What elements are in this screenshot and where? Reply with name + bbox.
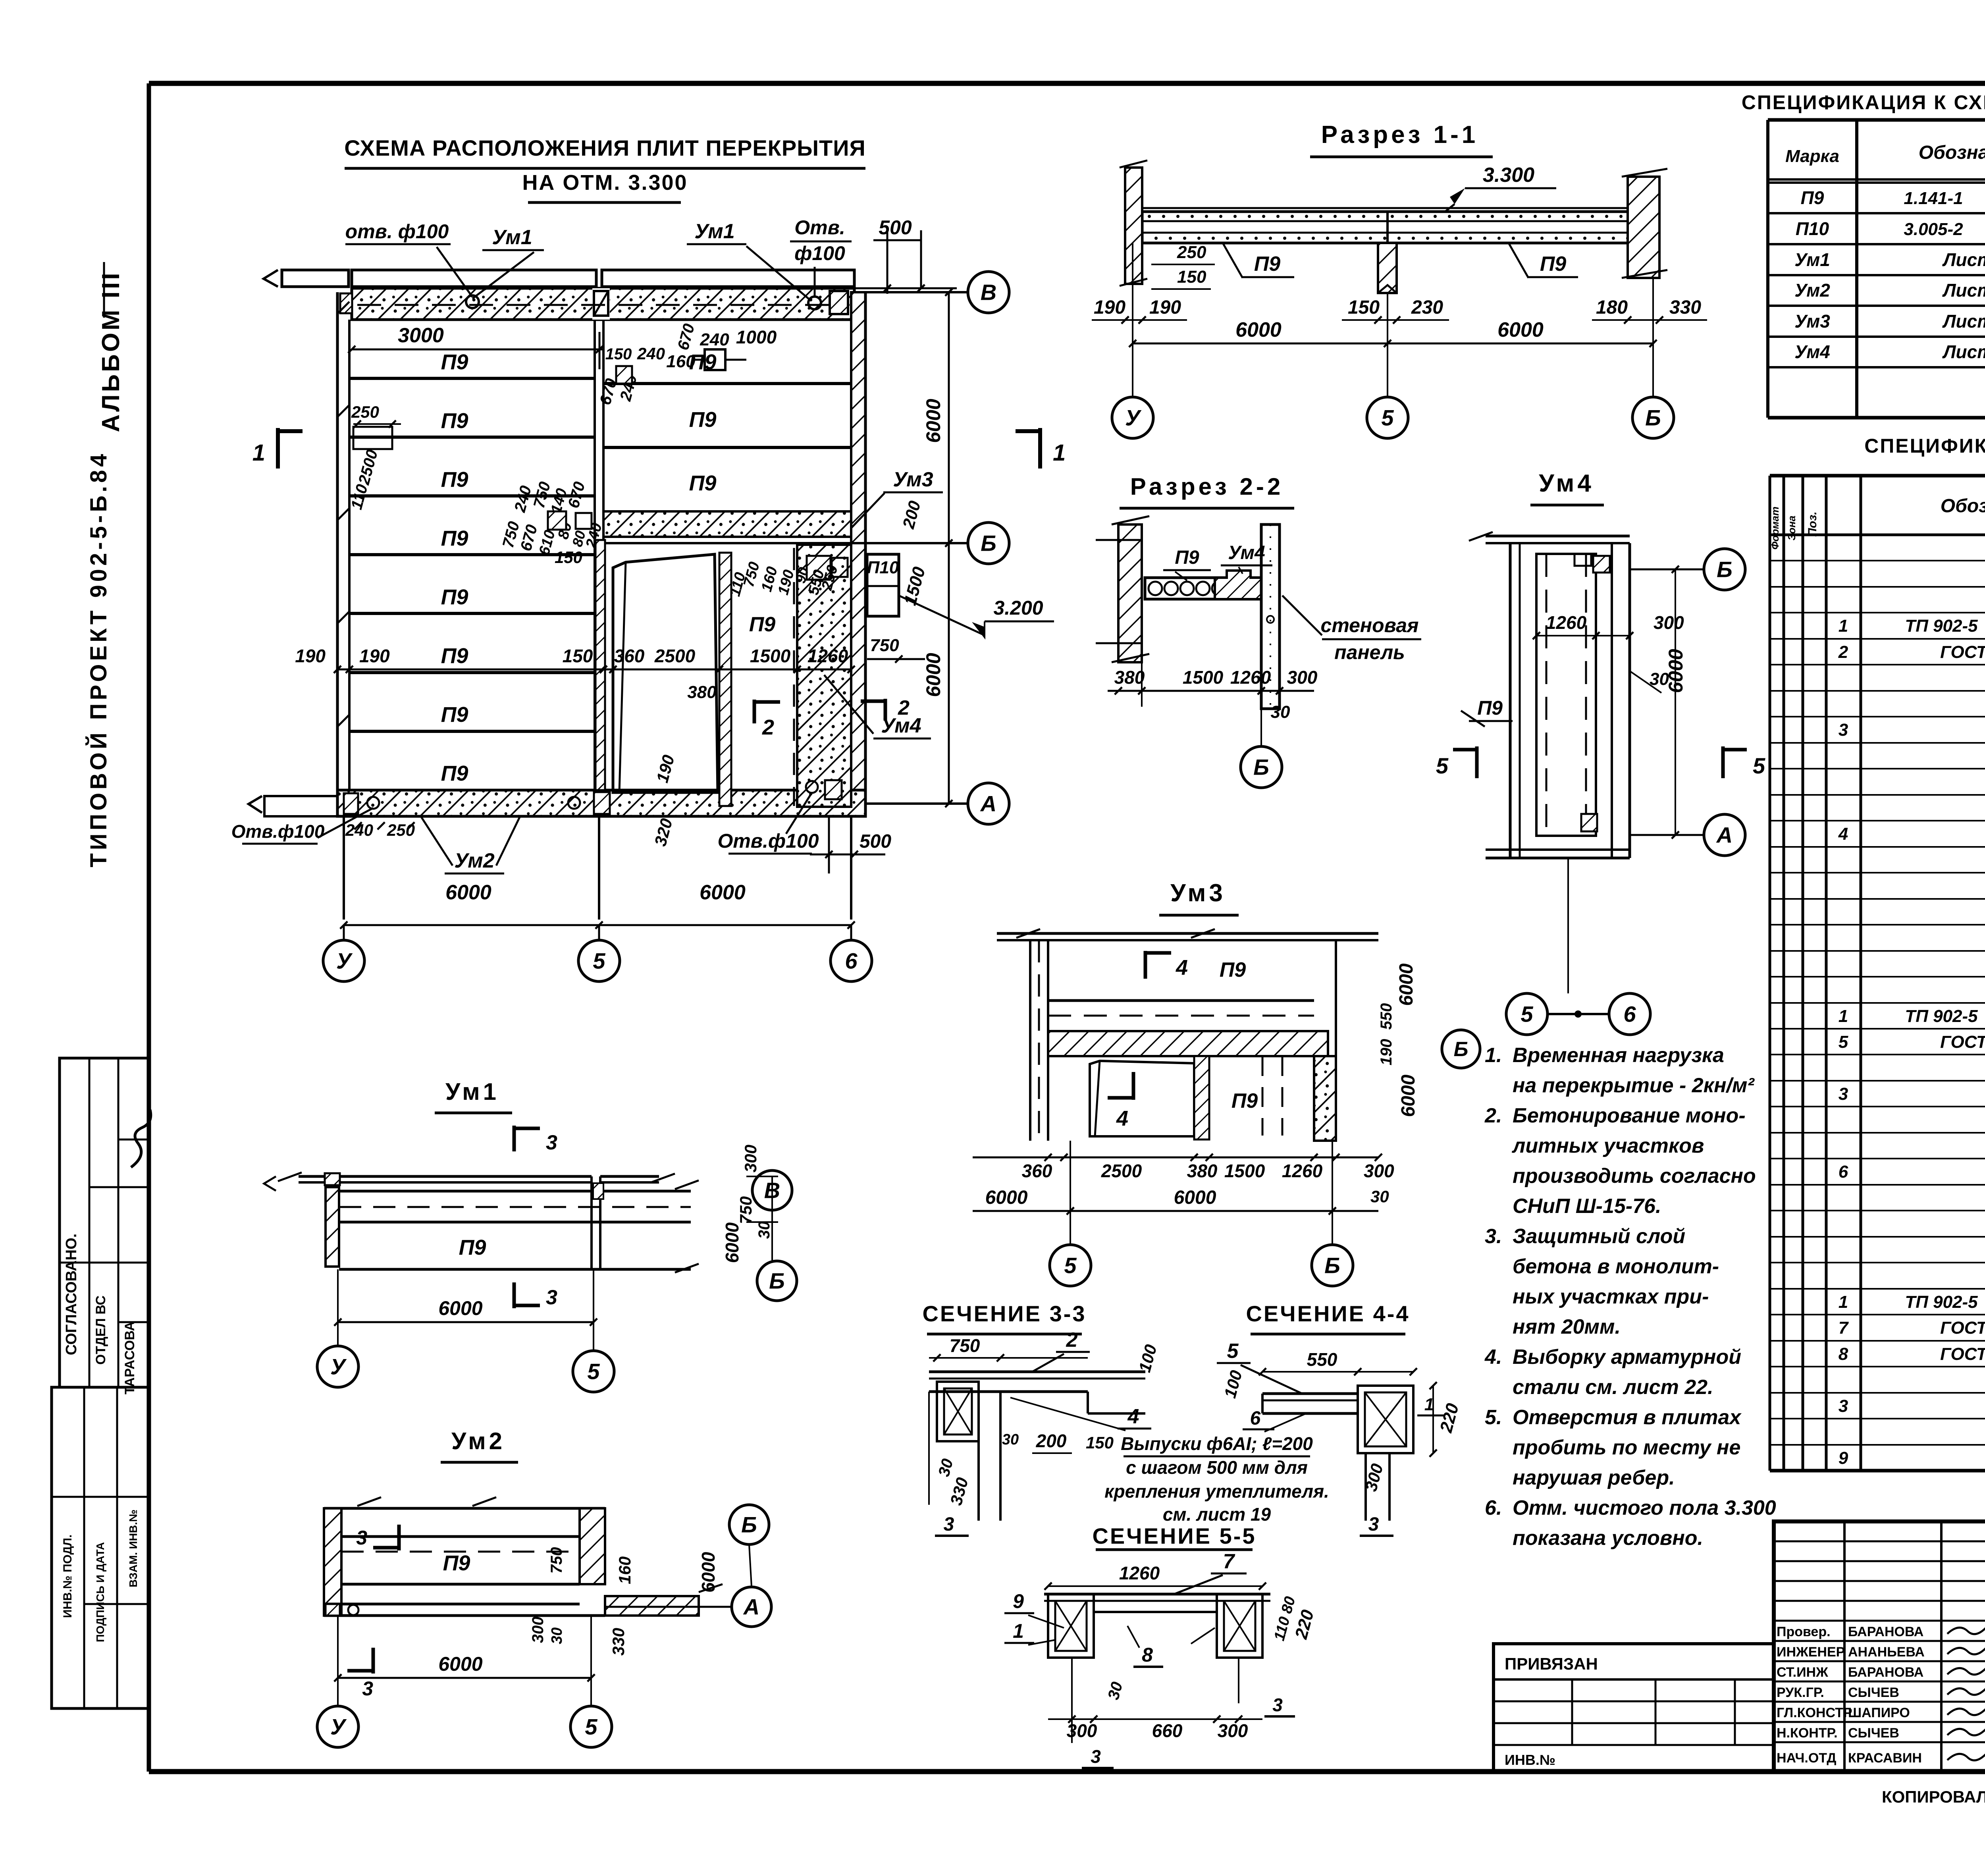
svg-text:30: 30 (1370, 1187, 1389, 1206)
svg-text:Ум4: Ум4 (1228, 542, 1265, 563)
svg-text:4: 4 (1176, 956, 1188, 979)
svg-text:стали см. лист 22.: стали см. лист 22. (1513, 1376, 1713, 1399)
svg-text:П9: П9 (689, 471, 717, 495)
svg-text:Ум2: Ум2 (451, 1428, 505, 1454)
svg-text:1500: 1500 (1224, 1161, 1265, 1181)
svg-text:ГЛ.КОНСТР: ГЛ.КОНСТР (1777, 1705, 1852, 1720)
svg-text:250: 250 (351, 403, 379, 421)
svg-text:Поз.: Поз. (1806, 511, 1819, 537)
svg-text:1000: 1000 (736, 327, 777, 347)
svg-text:Отв.ф100: Отв.ф100 (231, 821, 325, 842)
svg-text:6000: 6000 (922, 653, 944, 697)
svg-text:БАРАНОВА: БАРАНОВА (1848, 1624, 1923, 1639)
svg-text:Ум2: Ум2 (1794, 280, 1830, 301)
svg-text:В: В (764, 1178, 780, 1203)
svg-text:300: 300 (1364, 1161, 1394, 1181)
svg-text:2.: 2. (1484, 1104, 1502, 1127)
svg-text:П9: П9 (441, 644, 468, 668)
svg-text:5: 5 (1521, 1002, 1533, 1027)
svg-text:П10: П10 (1796, 218, 1829, 239)
svg-text:550: 550 (1378, 1003, 1395, 1030)
svg-text:П9: П9 (689, 408, 717, 432)
svg-text:5: 5 (585, 1714, 597, 1739)
svg-text:6000: 6000 (700, 881, 746, 904)
svg-text:СХЕМА РАСПОЛОЖЕНИЯ ПЛИТ ПЕРЕКР: СХЕМА РАСПОЛОЖЕНИЯ ПЛИТ ПЕРЕКРЫТИЯ (344, 135, 866, 160)
svg-text:1: 1 (1053, 440, 1066, 466)
svg-text:Б: Б (1645, 405, 1661, 430)
svg-text:300: 300 (529, 1617, 547, 1643)
svg-text:5: 5 (593, 949, 605, 974)
svg-text:А: А (980, 791, 996, 816)
svg-text:Лист 17: Лист 17 (1942, 311, 1985, 332)
svg-text:360: 360 (614, 646, 645, 666)
svg-text:6: 6 (1250, 1408, 1261, 1429)
svg-text:6.: 6. (1485, 1496, 1502, 1519)
svg-text:6000: 6000 (438, 1297, 482, 1319)
svg-text:Н.КОНТР.: Н.КОНТР. (1777, 1726, 1838, 1741)
svg-text:П9: П9 (441, 762, 468, 785)
svg-text:3: 3 (356, 1527, 367, 1549)
svg-text:П9: П9 (441, 703, 468, 727)
svg-text:СЫЧЕВ: СЫЧЕВ (1848, 1726, 1899, 1741)
svg-text:160: 160 (666, 352, 696, 371)
svg-text:750: 750 (950, 1335, 980, 1356)
svg-text:180: 180 (1596, 297, 1628, 318)
svg-text:крепления утеплителя.: крепления утеплителя. (1104, 1481, 1329, 1502)
svg-text:П9: П9 (1540, 253, 1566, 276)
svg-text:300: 300 (741, 1145, 760, 1172)
svg-text:Временная нагрузка: Временная нагрузка (1513, 1044, 1724, 1067)
svg-text:панель: панель (1334, 641, 1405, 663)
svg-text:150: 150 (1086, 1433, 1114, 1452)
svg-text:литных участков: литных участков (1511, 1134, 1704, 1157)
svg-text:2: 2 (1838, 642, 1848, 662)
svg-text:СЫЧЕВ: СЫЧЕВ (1848, 1685, 1899, 1700)
svg-text:ИНВ.№ ПОДЛ.: ИНВ.№ ПОДЛ. (61, 1535, 74, 1618)
svg-text:стеновая: стеновая (1321, 614, 1419, 636)
svg-text:П10: П10 (867, 558, 899, 577)
svg-text:1260: 1260 (1230, 667, 1271, 688)
svg-text:240: 240 (700, 330, 729, 349)
svg-text:П9: П9 (441, 409, 468, 433)
svg-text:ТП 902-5: ТП 902-5 (1905, 1292, 1978, 1312)
svg-text:1: 1 (252, 440, 265, 466)
svg-text:2500: 2500 (1101, 1161, 1142, 1181)
svg-text:ГОСТ 23279-78: ГОСТ 23279-78 (1940, 1032, 1985, 1052)
svg-text:ГОСТ 23279-78: ГОСТ 23279-78 (1940, 642, 1985, 662)
svg-text:3: 3 (1839, 1084, 1848, 1104)
svg-text:НА ОТМ. 3.300: НА ОТМ. 3.300 (522, 171, 688, 195)
svg-text:ГОСТ 23279-78: ГОСТ 23279-78 (1940, 1318, 1985, 1338)
svg-text:Ум1: Ум1 (694, 220, 734, 243)
svg-text:3.200: 3.200 (993, 597, 1043, 619)
svg-text:КРАСАВИН: КРАСАВИН (1848, 1751, 1922, 1766)
svg-text:4.: 4. (1484, 1346, 1502, 1369)
svg-text:250: 250 (1177, 243, 1206, 262)
svg-text:4: 4 (1127, 1405, 1139, 1428)
svg-text:Б: Б (741, 1512, 757, 1537)
svg-text:ных участках при-: ных участках при- (1513, 1285, 1709, 1308)
svg-text:П9: П9 (459, 1236, 486, 1259)
svg-text:АНАНЬЕВА: АНАНЬЕВА (1848, 1645, 1925, 1660)
svg-text:5: 5 (587, 1359, 600, 1384)
svg-text:Бетонирование моно-: Бетонирование моно- (1513, 1104, 1746, 1127)
svg-text:150: 150 (1177, 267, 1206, 287)
svg-text:ПОДПИСЬ И ДАТА: ПОДПИСЬ И ДАТА (94, 1542, 106, 1642)
svg-text:с шагом 500 мм для: с шагом 500 мм для (1126, 1457, 1308, 1478)
svg-text:Обозначение: Обозначение (1941, 496, 1985, 517)
svg-text:6000: 6000 (438, 1653, 482, 1675)
svg-text:У: У (330, 1714, 347, 1739)
svg-text:5: 5 (1381, 405, 1394, 430)
svg-text:1: 1 (1013, 1620, 1024, 1642)
svg-text:Выпуски ф6АI; ℓ=200: Выпуски ф6АI; ℓ=200 (1121, 1433, 1313, 1454)
svg-text:П9: П9 (441, 350, 468, 374)
svg-text:2500: 2500 (654, 646, 696, 666)
svg-text:Лист 17: Лист 17 (1942, 280, 1985, 301)
svg-text:Отв.ф100: Отв.ф100 (717, 830, 819, 852)
svg-text:бетона в монолит-: бетона в монолит- (1513, 1255, 1719, 1278)
svg-text:1.141-1: 1.141-1 (1904, 189, 1963, 208)
svg-text:190: 190 (295, 646, 326, 666)
svg-text:6: 6 (1839, 1162, 1848, 1182)
svg-text:П9: П9 (1220, 958, 1246, 981)
svg-text:ГОСТ 23279-78: ГОСТ 23279-78 (1940, 1344, 1985, 1364)
svg-text:Защитный слой: Защитный слой (1513, 1225, 1685, 1248)
svg-text:3: 3 (546, 1286, 557, 1309)
svg-text:СЕЧЕНИЕ 5-5: СЕЧЕНИЕ 5-5 (1092, 1523, 1256, 1548)
svg-text:190: 190 (1094, 297, 1125, 318)
svg-text:Марка: Марка (1785, 147, 1839, 166)
svg-text:Провер.: Провер. (1777, 1624, 1831, 1639)
svg-text:380: 380 (1114, 667, 1145, 688)
svg-text:ф100: ф100 (794, 242, 845, 264)
svg-text:Б: Б (1717, 557, 1733, 582)
svg-text:300: 300 (1218, 1720, 1248, 1741)
svg-text:1: 1 (1839, 1292, 1848, 1312)
svg-text:6000: 6000 (1497, 318, 1544, 341)
svg-text:РУК.ГР.: РУК.ГР. (1777, 1685, 1824, 1700)
svg-text:3000: 3000 (398, 324, 444, 347)
svg-text:30: 30 (1271, 702, 1290, 722)
svg-text:150: 150 (555, 548, 582, 567)
svg-text:ТИПОВОЙ ПРОЕКТ 902-5-Б.84: ТИПОВОЙ ПРОЕКТ 902-5-Б.84 (86, 451, 112, 867)
svg-text:П9: П9 (1801, 187, 1824, 208)
svg-text:Отверстия в плитах: Отверстия в плитах (1513, 1406, 1742, 1429)
svg-text:230: 230 (1411, 297, 1443, 318)
svg-text:190: 190 (1378, 1039, 1395, 1066)
svg-text:3: 3 (1368, 1514, 1379, 1535)
svg-text:Б: Б (1253, 755, 1269, 780)
svg-text:6000: 6000 (698, 1552, 719, 1593)
svg-text:на перекрытие - 2кн/м²: на перекрытие - 2кн/м² (1513, 1074, 1755, 1097)
svg-text:СТ.ИНЖ: СТ.ИНЖ (1777, 1665, 1828, 1680)
svg-text:ШАПИРО: ШАПИРО (1848, 1705, 1910, 1720)
svg-text:П9: П9 (1175, 547, 1199, 568)
svg-text:П9: П9 (1231, 1089, 1258, 1112)
svg-text:380: 380 (687, 683, 717, 702)
svg-text:2: 2 (1066, 1328, 1078, 1352)
svg-text:750: 750 (548, 1547, 565, 1574)
svg-text:Ум1: Ум1 (445, 1078, 499, 1105)
svg-text:3.005-2: 3.005-2 (1904, 220, 1963, 239)
svg-text:БАРАНОВА: БАРАНОВА (1848, 1665, 1923, 1680)
svg-text:380: 380 (1187, 1161, 1218, 1181)
svg-text:150: 150 (605, 345, 632, 363)
svg-text:4: 4 (1838, 824, 1848, 844)
svg-text:производить согласно: производить согласно (1513, 1165, 1756, 1188)
svg-text:Ум4: Ум4 (1794, 341, 1830, 362)
svg-text:СПЕЦИФИКАЦИЯ К СХЕМЕ РАСПОЛОЖЕ: СПЕЦИФИКАЦИЯ К СХЕМЕ РАСПОЛОЖЕНИЯ ПЛИТ П… (1742, 91, 1985, 114)
svg-text:3: 3 (1839, 720, 1848, 740)
svg-text:П9: П9 (441, 585, 468, 609)
svg-text:СНиП Ш-15-76.: СНиП Ш-15-76. (1513, 1195, 1661, 1218)
svg-text:Зона: Зона (1786, 516, 1798, 541)
svg-text:Обозначение: Обозначение (1919, 142, 1985, 163)
svg-text:НАЧ.ОТД: НАЧ.ОТД (1777, 1751, 1836, 1766)
svg-text:3: 3 (362, 1677, 373, 1700)
svg-text:Лист 17: Лист 17 (1942, 249, 1985, 270)
svg-text:3.: 3. (1485, 1225, 1502, 1248)
svg-text:750: 750 (870, 636, 899, 655)
svg-text:ТП 902-5: ТП 902-5 (1905, 616, 1978, 636)
svg-text:3: 3 (944, 1514, 954, 1535)
svg-text:А: А (743, 1595, 759, 1620)
svg-text:показана условно.: показана условно. (1513, 1527, 1703, 1550)
svg-text:Б: Б (769, 1269, 785, 1294)
svg-text:Ум2: Ум2 (454, 849, 494, 872)
svg-text:2: 2 (898, 696, 910, 719)
svg-text:П9: П9 (443, 1551, 470, 1575)
svg-text:8: 8 (1839, 1344, 1848, 1364)
svg-text:2: 2 (762, 715, 774, 739)
svg-text:1260: 1260 (1119, 1563, 1160, 1583)
svg-text:4: 4 (1116, 1107, 1128, 1130)
svg-text:5: 5 (1839, 1032, 1848, 1052)
svg-text:1260: 1260 (1546, 612, 1587, 633)
svg-text:200: 200 (1036, 1431, 1067, 1451)
svg-text:6: 6 (845, 949, 858, 974)
svg-text:1260: 1260 (1282, 1161, 1323, 1181)
svg-text:1: 1 (1839, 616, 1848, 636)
svg-text:Разрез 1-1: Разрез 1-1 (1321, 121, 1479, 148)
svg-text:5.: 5. (1485, 1406, 1502, 1429)
svg-text:1500: 1500 (1183, 667, 1224, 688)
svg-text:ИНВ.№: ИНВ.№ (1505, 1752, 1555, 1768)
svg-text:5: 5 (1753, 753, 1765, 778)
svg-text:300: 300 (1654, 612, 1684, 633)
svg-text:30: 30 (1002, 1431, 1019, 1448)
svg-text:СПЕЦИФИКАЦИЯ МОНОЛИТНЫХ УЧАСТК: СПЕЦИФИКАЦИЯ МОНОЛИТНЫХ УЧАСТКОВ Ум1 ÷ У… (1864, 435, 1985, 457)
svg-text:500: 500 (879, 216, 912, 239)
svg-text:пробить по месту не: пробить по месту не (1513, 1436, 1740, 1459)
svg-text:6000: 6000 (1235, 318, 1282, 341)
svg-text:П9: П9 (1477, 697, 1503, 719)
svg-text:30: 30 (549, 1627, 565, 1644)
svg-text:Ум3: Ум3 (1170, 879, 1226, 907)
svg-text:6000: 6000 (1396, 963, 1417, 1006)
svg-text:7: 7 (1223, 1550, 1235, 1573)
svg-text:360: 360 (1022, 1161, 1052, 1181)
svg-text:9: 9 (1013, 1590, 1024, 1612)
svg-text:П9: П9 (749, 613, 775, 636)
svg-text:Ум1: Ум1 (492, 226, 532, 249)
svg-text:В: В (981, 280, 996, 305)
svg-text:ТАРАСОВА: ТАРАСОВА (122, 1321, 137, 1394)
svg-text:У: У (330, 1354, 347, 1379)
svg-text:У: У (1125, 405, 1142, 430)
svg-text:5: 5 (1064, 1253, 1077, 1278)
svg-text:500: 500 (860, 831, 891, 852)
svg-text:3: 3 (1091, 1746, 1101, 1767)
svg-text:СОГЛАСОВАНО.: СОГЛАСОВАНО. (63, 1234, 80, 1355)
svg-text:ПРИВЯЗАН: ПРИВЯЗАН (1505, 1654, 1598, 1673)
svg-text:1.: 1. (1485, 1044, 1502, 1067)
svg-text:330: 330 (609, 1628, 628, 1656)
svg-text:Отм. чистого пола 3.300: Отм. чистого пола 3.300 (1513, 1496, 1776, 1519)
svg-text:6000: 6000 (445, 881, 491, 904)
svg-text:Б: Б (981, 531, 996, 556)
svg-text:3.300: 3.300 (1483, 164, 1534, 187)
svg-text:ОТДЕЛ ВС: ОТДЕЛ ВС (93, 1296, 108, 1365)
svg-text:П9: П9 (441, 526, 468, 550)
svg-text:300: 300 (1287, 667, 1318, 688)
svg-text:8: 8 (1142, 1644, 1153, 1666)
svg-text:1500: 1500 (750, 646, 791, 666)
svg-text:отв. ф100: отв. ф100 (345, 220, 449, 243)
svg-text:ТП 902-5: ТП 902-5 (1905, 1006, 1978, 1026)
svg-text:Ум1: Ум1 (1794, 249, 1830, 270)
svg-text:5: 5 (1227, 1340, 1239, 1363)
svg-text:Формат: Формат (1769, 507, 1781, 550)
svg-text:нят 20мм.: нят 20мм. (1513, 1315, 1621, 1338)
svg-text:190: 190 (359, 646, 390, 666)
svg-text:250: 250 (387, 821, 415, 839)
svg-text:Разрез 2-2: Разрез 2-2 (1130, 473, 1284, 500)
svg-text:Выборку арматурной: Выборку арматурной (1513, 1346, 1741, 1369)
svg-text:5: 5 (1436, 753, 1449, 778)
svg-text:6000: 6000 (722, 1222, 742, 1263)
svg-text:3: 3 (1272, 1695, 1283, 1715)
svg-text:Б: Б (1454, 1038, 1469, 1061)
svg-text:6000: 6000 (922, 399, 944, 443)
svg-text:6000: 6000 (985, 1187, 1028, 1208)
svg-text:150: 150 (1348, 297, 1380, 318)
svg-text:Ум3: Ум3 (893, 468, 933, 491)
svg-text:ИНЖЕНЕР: ИНЖЕНЕР (1777, 1645, 1845, 1660)
svg-text:Б: Б (1324, 1253, 1340, 1278)
svg-text:1: 1 (1839, 1006, 1848, 1026)
svg-text:Отв.: Отв. (794, 216, 845, 239)
svg-text:240: 240 (637, 344, 665, 363)
svg-text:6: 6 (1623, 1002, 1636, 1027)
svg-text:160: 160 (615, 1556, 634, 1584)
svg-text:СЕЧЕНИЕ 3-3: СЕЧЕНИЕ 3-3 (922, 1301, 1086, 1326)
svg-text:ВЗАМ. ИНВ.№: ВЗАМ. ИНВ.№ (127, 1510, 139, 1587)
svg-text:9: 9 (1839, 1448, 1848, 1468)
svg-text:А: А (1716, 823, 1733, 848)
svg-text:550: 550 (1307, 1349, 1337, 1370)
svg-text:660: 660 (1152, 1720, 1183, 1741)
svg-text:6000: 6000 (1174, 1187, 1216, 1208)
svg-text:190: 190 (1149, 297, 1181, 318)
svg-text:У: У (336, 949, 353, 974)
svg-text:330: 330 (1669, 297, 1701, 318)
svg-text:П9: П9 (441, 468, 468, 492)
svg-text:АЛЬБОМ III: АЛЬБОМ III (97, 271, 125, 432)
svg-text:3: 3 (1839, 1396, 1848, 1416)
svg-text:Ум4: Ум4 (1539, 470, 1594, 497)
svg-text:КОПИРОВАЛ: КОРШУНОВА: КОПИРОВАЛ: КОРШУНОВА (1882, 1787, 1985, 1806)
svg-text:П9: П9 (1254, 253, 1280, 276)
svg-text:см. лист 19: см. лист 19 (1163, 1504, 1271, 1525)
svg-text:7: 7 (1839, 1318, 1849, 1338)
svg-text:СЕЧЕНИЕ 4-4: СЕЧЕНИЕ 4-4 (1246, 1301, 1410, 1326)
svg-text:1260: 1260 (807, 646, 848, 666)
svg-text:6000: 6000 (1398, 1074, 1419, 1117)
svg-text:30: 30 (755, 1221, 773, 1239)
svg-text:3: 3 (546, 1131, 557, 1154)
svg-text:750: 750 (736, 1196, 755, 1224)
svg-text:Лист 17: Лист 17 (1942, 341, 1985, 362)
svg-text:150: 150 (563, 646, 593, 666)
svg-text:нарушая ребер.: нарушая ребер. (1513, 1466, 1675, 1489)
svg-text:Ум3: Ум3 (1794, 311, 1830, 332)
